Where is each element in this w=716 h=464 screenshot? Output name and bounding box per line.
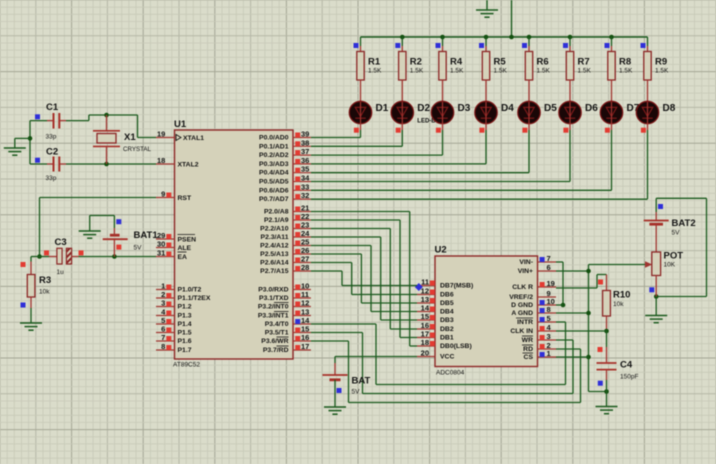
- svg-text:D6: D6: [585, 103, 598, 114]
- svg-text:10K: 10K: [664, 262, 676, 269]
- svg-text:P3.7/RD: P3.7/RD: [263, 347, 289, 354]
- svg-text:R2: R2: [410, 57, 422, 68]
- svg-text:33p: 33p: [46, 134, 57, 141]
- svg-text:P3.1/TXD: P3.1/TXD: [259, 295, 289, 302]
- svg-text:DB0(LSB): DB0(LSB): [440, 343, 472, 350]
- svg-text:P1.3: P1.3: [178, 313, 192, 320]
- svg-text:P1.7: P1.7: [178, 347, 192, 354]
- svg-text:P3.3/INT1: P3.3/INT1: [258, 313, 289, 320]
- svg-text:R10: R10: [613, 290, 630, 301]
- svg-text:BAT1: BAT1: [134, 230, 159, 241]
- svg-text:1.5K: 1.5K: [494, 67, 508, 74]
- svg-text:AT89C52: AT89C52: [173, 362, 200, 369]
- svg-text:16: 16: [301, 333, 309, 342]
- svg-text:P1.6: P1.6: [178, 338, 192, 345]
- svg-text:35: 35: [301, 165, 309, 174]
- svg-text:CRYSTAL: CRYSTAL: [123, 146, 152, 153]
- svg-text:P2.3/A11: P2.3/A11: [261, 234, 289, 241]
- svg-text:D3: D3: [458, 103, 471, 114]
- svg-text:ALE: ALE: [178, 245, 192, 252]
- svg-text:5: 5: [547, 314, 551, 323]
- svg-text:3: 3: [161, 299, 165, 308]
- svg-text:P1.0/T2: P1.0/T2: [178, 287, 202, 294]
- svg-text:1.5K: 1.5K: [619, 67, 633, 74]
- svg-text:28: 28: [301, 263, 309, 272]
- svg-text:7: 7: [547, 254, 551, 263]
- svg-text:30: 30: [157, 240, 165, 249]
- svg-text:33: 33: [301, 182, 309, 191]
- svg-text:P0.0/AD0: P0.0/AD0: [259, 135, 289, 142]
- svg-text:1.5K: 1.5K: [537, 67, 551, 74]
- svg-text:32: 32: [301, 191, 309, 200]
- svg-text:P0.3/AD3: P0.3/AD3: [259, 161, 289, 168]
- svg-text:6: 6: [547, 263, 551, 272]
- svg-text:P2.6/A14: P2.6/A14: [260, 260, 289, 267]
- svg-text:WR: WR: [522, 337, 533, 344]
- svg-text:C3: C3: [55, 237, 67, 248]
- svg-text:P3.0/RXD: P3.0/RXD: [258, 287, 288, 294]
- svg-text:P1.1/T2EX: P1.1/T2EX: [178, 295, 211, 302]
- svg-text:VCC: VCC: [440, 354, 454, 361]
- svg-text:R5: R5: [494, 57, 507, 68]
- svg-text:7: 7: [161, 333, 165, 342]
- svg-text:20: 20: [421, 349, 429, 358]
- svg-text:RST: RST: [178, 195, 192, 202]
- svg-text:1.5K: 1.5K: [450, 67, 464, 74]
- svg-text:11: 11: [421, 278, 429, 287]
- svg-text:34: 34: [301, 174, 310, 183]
- svg-text:RD: RD: [523, 346, 533, 353]
- svg-text:1.5K: 1.5K: [410, 67, 424, 74]
- svg-text:D8: D8: [663, 103, 676, 114]
- svg-text:R7: R7: [578, 57, 590, 68]
- svg-text:R6: R6: [537, 57, 549, 68]
- svg-text:DB6: DB6: [440, 292, 454, 299]
- svg-text:R4: R4: [450, 57, 463, 68]
- svg-text:18: 18: [421, 338, 429, 347]
- svg-text:P0.4/AD4: P0.4/AD4: [259, 170, 289, 177]
- svg-text:P0.7/AD7: P0.7/AD7: [259, 196, 289, 203]
- svg-text:5V: 5V: [352, 389, 361, 396]
- svg-text:5V: 5V: [134, 245, 143, 252]
- svg-text:17: 17: [301, 342, 309, 351]
- svg-text:P2.7/A15: P2.7/A15: [260, 268, 289, 275]
- svg-text:12: 12: [301, 299, 309, 308]
- svg-text:1.5K: 1.5K: [578, 67, 592, 74]
- svg-text:CLK R: CLK R: [512, 284, 533, 291]
- svg-text:EA: EA: [178, 254, 188, 261]
- svg-text:10k: 10k: [613, 301, 624, 308]
- svg-text:XTAL2: XTAL2: [178, 162, 199, 169]
- svg-text:ADC0804: ADC0804: [436, 370, 465, 377]
- svg-text:3: 3: [547, 332, 551, 341]
- svg-text:33p: 33p: [46, 175, 57, 182]
- svg-text:U1: U1: [174, 119, 187, 130]
- svg-text:8: 8: [547, 305, 551, 314]
- svg-text:P2.4/A12: P2.4/A12: [260, 243, 289, 250]
- svg-text:R1: R1: [368, 57, 381, 68]
- svg-text:1: 1: [547, 349, 551, 358]
- svg-text:D1: D1: [376, 103, 389, 114]
- svg-text:15: 15: [421, 312, 429, 321]
- svg-text:P2.5/A13: P2.5/A13: [260, 251, 289, 258]
- svg-text:D GND: D GND: [511, 302, 533, 309]
- svg-text:36: 36: [301, 156, 309, 165]
- svg-text:DB4: DB4: [440, 309, 454, 316]
- svg-text:DB2: DB2: [440, 326, 454, 333]
- svg-text:DB3: DB3: [440, 317, 454, 324]
- svg-text:INTR: INTR: [517, 319, 533, 326]
- svg-text:BAT: BAT: [352, 376, 371, 387]
- svg-text:1.5K: 1.5K: [368, 67, 382, 74]
- svg-text:39: 39: [301, 130, 309, 139]
- svg-text:CLK IN: CLK IN: [510, 328, 533, 335]
- svg-text:P0.5/AD5: P0.5/AD5: [259, 179, 289, 186]
- svg-text:C1: C1: [46, 102, 59, 113]
- svg-text:P1.2: P1.2: [178, 304, 192, 311]
- svg-text:C4: C4: [620, 360, 633, 371]
- svg-text:POT: POT: [664, 251, 684, 262]
- svg-text:38: 38: [301, 138, 309, 147]
- svg-text:VIN-: VIN-: [519, 259, 533, 266]
- svg-text:1u: 1u: [57, 269, 65, 276]
- svg-text:9: 9: [161, 190, 165, 199]
- svg-text:U2: U2: [435, 245, 447, 256]
- svg-text:P3.4/T0: P3.4/T0: [265, 321, 289, 328]
- svg-text:CS: CS: [524, 354, 534, 361]
- svg-text:D2: D2: [417, 103, 430, 114]
- svg-text:31: 31: [157, 249, 165, 258]
- svg-text:DB1: DB1: [440, 335, 454, 342]
- svg-text:VIN+: VIN+: [518, 268, 533, 275]
- svg-text:8: 8: [161, 342, 165, 351]
- svg-text:PSEN: PSEN: [178, 237, 197, 244]
- svg-text:P3.2/INT0: P3.2/INT0: [258, 304, 289, 311]
- svg-text:P3.6/WR: P3.6/WR: [261, 338, 288, 345]
- svg-text:R3: R3: [39, 275, 51, 286]
- svg-text:P0.2/AD2: P0.2/AD2: [259, 152, 289, 159]
- svg-text:DB5: DB5: [440, 300, 454, 307]
- svg-text:37: 37: [301, 147, 309, 156]
- svg-text:P0.6/AD6: P0.6/AD6: [259, 187, 289, 194]
- svg-text:P1.5: P1.5: [178, 330, 192, 337]
- svg-text:P2.1/A9: P2.1/A9: [264, 217, 289, 224]
- svg-text:P2.0/A8: P2.0/A8: [264, 209, 289, 216]
- svg-text:P3.5/T1: P3.5/T1: [265, 330, 289, 337]
- svg-text:1.5K: 1.5K: [655, 67, 669, 74]
- svg-text:10k: 10k: [39, 289, 50, 296]
- svg-text:150pF: 150pF: [620, 374, 638, 381]
- svg-text:D5: D5: [544, 103, 557, 114]
- svg-text:XTAL1: XTAL1: [183, 135, 204, 142]
- svg-text:VREF/2: VREF/2: [509, 294, 533, 301]
- svg-text:18: 18: [157, 156, 165, 165]
- svg-text:R9: R9: [655, 57, 667, 68]
- svg-text:R8: R8: [619, 57, 631, 68]
- svg-text:DB7(MSB): DB7(MSB): [440, 283, 473, 290]
- svg-text:P2.2/A10: P2.2/A10: [260, 226, 289, 233]
- svg-text:X1: X1: [124, 132, 136, 143]
- svg-text:P1.4: P1.4: [178, 321, 192, 328]
- svg-text:19: 19: [157, 130, 165, 139]
- svg-text:5V: 5V: [672, 230, 681, 237]
- svg-text:P0.1/AD1: P0.1/AD1: [259, 143, 289, 150]
- svg-text:D4: D4: [501, 103, 514, 114]
- svg-text:BAT2: BAT2: [672, 218, 696, 229]
- svg-text:19: 19: [547, 279, 555, 288]
- svg-text:A GND: A GND: [511, 310, 533, 317]
- svg-text:C2: C2: [46, 147, 58, 158]
